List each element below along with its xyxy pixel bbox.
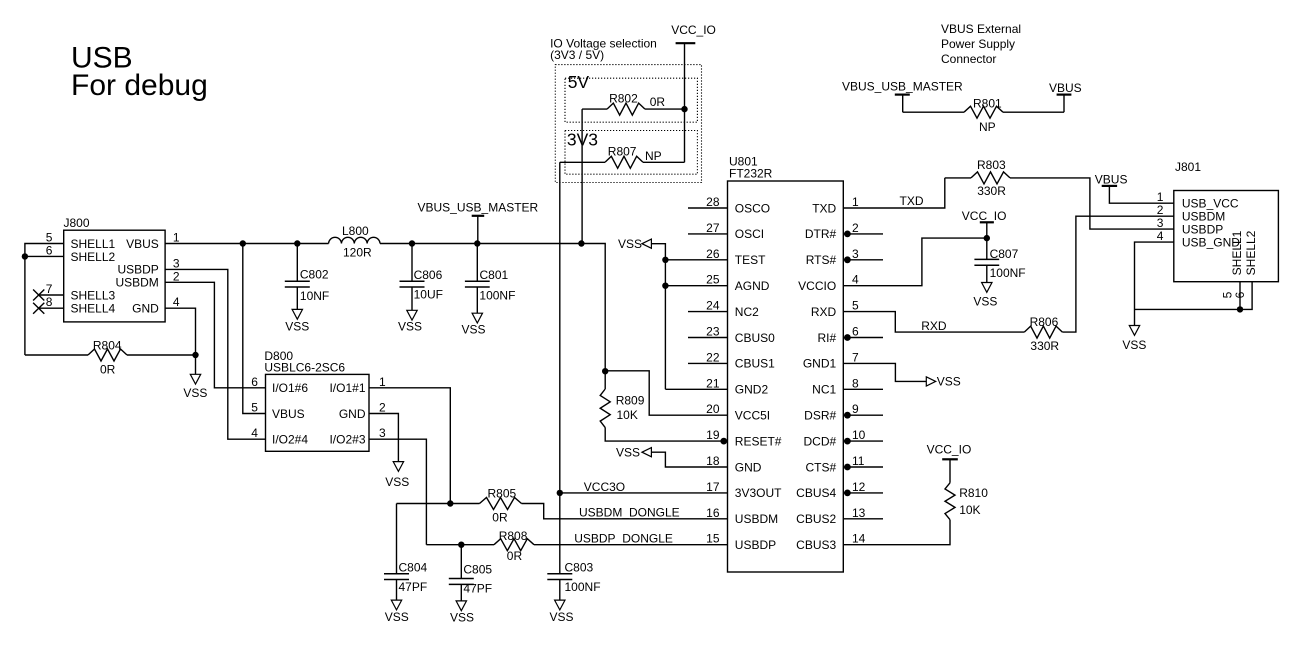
svg-text:4: 4 — [173, 295, 180, 309]
svg-text:0R: 0R — [100, 363, 116, 377]
svg-text:FT232R: FT232R — [729, 166, 773, 180]
svg-text:17: 17 — [706, 480, 720, 494]
wire J800 USBDP to D800 pin4 — [165, 269, 265, 439]
svg-text:TXD: TXD — [812, 201, 836, 215]
capacitor C801 100NF — [476, 244, 478, 282]
resistor R809 10K — [604, 371, 606, 389]
wire U801 pin 9 stub — [843, 414, 883, 416]
svg-text:100NF: 100NF — [990, 266, 1026, 280]
svg-text:VSS: VSS — [616, 445, 640, 459]
dotted box 5V — [565, 78, 697, 122]
svg-text:C806: C806 — [414, 268, 443, 282]
svg-text:330R: 330R — [1030, 339, 1059, 353]
svg-text:C805: C805 — [463, 563, 492, 577]
svg-text:R806: R806 — [1030, 315, 1059, 329]
svg-text:NC2: NC2 — [735, 305, 759, 319]
wire VBUS rail from J800 pin1 to L800 — [165, 243, 329, 245]
capacitor C807 100NF — [986, 238, 988, 259]
svg-text:3: 3 — [852, 247, 859, 261]
svg-text:C802: C802 — [300, 268, 329, 282]
svg-text:USB_VCC: USB_VCC — [1182, 197, 1239, 211]
svg-text:10UF: 10UF — [414, 288, 443, 302]
svg-text:VSS: VSS — [385, 475, 409, 489]
no-connect X pin7 — [33, 290, 44, 301]
wire D800 pin1 to R805 — [369, 388, 450, 504]
svg-text:R801: R801 — [973, 97, 1002, 111]
svg-text:USBDP: USBDP — [1182, 222, 1223, 236]
node junction shell pin5 — [1237, 306, 1243, 312]
svg-text:27: 27 — [706, 221, 720, 235]
wire RXD pin5 — [843, 312, 1024, 333]
wire J800 USBDM to D800 pin6 — [165, 282, 265, 387]
wire VSS to GND pin18 — [651, 452, 727, 467]
svg-text:8: 8 — [852, 376, 859, 390]
capacitor C806 10UF — [411, 244, 413, 282]
svg-text:22: 22 — [706, 350, 720, 364]
svg-text:R807: R807 — [608, 145, 637, 159]
dotted box 3V3 — [565, 131, 697, 175]
svg-text:6: 6 — [46, 243, 53, 257]
resistor R805 0R — [397, 503, 480, 505]
svg-text:USBDP_DONGLE: USBDP_DONGLE — [574, 532, 673, 546]
ground VSS (C806) — [407, 310, 417, 320]
svg-text:R803: R803 — [977, 158, 1006, 172]
svg-text:VSS: VSS — [618, 237, 642, 251]
wire VSS to TEST/AGND/GND2 — [651, 244, 665, 390]
node junction SHELL1/SHELL2 — [22, 253, 28, 259]
svg-text:VSS: VSS — [549, 610, 573, 624]
ground VSS (C801) — [472, 313, 482, 323]
svg-text:VSS: VSS — [398, 320, 422, 334]
node junction R805/D800 pin1 — [447, 500, 453, 506]
svg-text:VSS: VSS — [285, 319, 309, 333]
svg-text:4: 4 — [1157, 229, 1164, 243]
svg-text:L800: L800 — [342, 224, 369, 238]
resistor R804 0R — [25, 354, 88, 356]
capacitor C803 100NF — [547, 573, 572, 575]
node junction C802 — [294, 240, 300, 246]
svg-text:TEST: TEST — [735, 253, 766, 267]
svg-text:VCCIO: VCCIO — [798, 279, 836, 293]
node junction R804/GND — [192, 352, 198, 358]
svg-text:GND: GND — [735, 460, 762, 474]
svg-text:J801: J801 — [1175, 160, 1201, 174]
wire U801 pin 23 stub — [688, 337, 728, 339]
svg-text:11: 11 — [852, 454, 865, 468]
wire VCCIO pin4 to VCC_IO — [843, 238, 987, 286]
svg-text:R809: R809 — [616, 394, 645, 408]
resistor R803 330R — [945, 177, 971, 179]
svg-text:For debug: For debug — [71, 69, 208, 102]
node junction R808/C805 — [458, 542, 464, 548]
resistor R801 NP — [903, 111, 964, 113]
wire R807 left leg down to 3V3OUT and C803 — [559, 162, 561, 573]
svg-text:I/O2#4: I/O2#4 — [272, 433, 308, 447]
capacitor C805 47PF — [460, 545, 462, 579]
svg-text:8: 8 — [46, 295, 53, 309]
svg-text:10NF: 10NF — [300, 289, 329, 303]
svg-text:CTS#: CTS# — [806, 460, 837, 474]
svg-text:SHELL2: SHELL2 — [1244, 230, 1258, 275]
node junction AGND — [662, 283, 668, 289]
svg-text:C804: C804 — [399, 561, 428, 575]
svg-text:NP: NP — [645, 149, 662, 163]
svg-text:4: 4 — [251, 426, 258, 440]
svg-text:VSS: VSS — [450, 611, 474, 625]
svg-text:5V: 5V — [568, 72, 590, 92]
svg-text:SHELL1: SHELL1 — [71, 237, 116, 251]
pin dot RESET# pin19 — [720, 438, 727, 445]
wire U801 pin 12 stub — [843, 492, 883, 494]
svg-text:47PF: 47PF — [399, 580, 428, 594]
svg-text:1: 1 — [852, 195, 859, 209]
svg-text:16: 16 — [706, 506, 720, 520]
svg-text:5: 5 — [251, 401, 258, 415]
svg-text:23: 23 — [706, 325, 720, 339]
svg-text:R802: R802 — [609, 91, 638, 105]
svg-text:100NF: 100NF — [479, 289, 515, 303]
wire R802 left leg down to VBUS rail — [581, 109, 583, 243]
capacitor C804 47PF — [396, 504, 398, 574]
svg-text:100NF: 100NF — [565, 580, 601, 594]
svg-text:VSS: VSS — [385, 610, 409, 624]
svg-text:3: 3 — [1157, 216, 1164, 230]
svg-text:VBUS: VBUS — [126, 237, 159, 251]
svg-text:0R: 0R — [650, 95, 666, 109]
svg-text:26: 26 — [706, 247, 720, 261]
svg-text:7: 7 — [46, 282, 53, 296]
svg-text:Connector: Connector — [941, 52, 996, 66]
svg-text:VBUS_USB_MASTER: VBUS_USB_MASTER — [418, 201, 539, 215]
svg-text:RI#: RI# — [818, 331, 837, 345]
svg-text:RXD: RXD — [921, 319, 947, 333]
svg-text:10K: 10K — [617, 408, 638, 422]
svg-text:Power Supply: Power Supply — [941, 37, 1015, 51]
node junction R802 leg — [578, 240, 584, 246]
svg-text:0R: 0R — [507, 549, 523, 563]
connector J801 — [1174, 191, 1279, 282]
svg-text:GND2: GND2 — [735, 383, 769, 397]
node junction C801 / VBUS_USB_MASTER — [474, 240, 480, 246]
svg-text:0R: 0R — [492, 511, 508, 525]
svg-text:10: 10 — [852, 428, 866, 442]
svg-text:5: 5 — [46, 231, 53, 245]
svg-text:CBUS4: CBUS4 — [796, 486, 836, 500]
diode array D800 USBLC6-2SC6 — [266, 374, 370, 451]
svg-text:VBUS: VBUS — [1049, 81, 1082, 95]
ground VSS arrow (GND1) — [926, 377, 935, 386]
svg-text:13: 13 — [852, 506, 866, 520]
svg-text:VCC_IO: VCC_IO — [927, 442, 972, 456]
svg-text:R808: R808 — [499, 529, 528, 543]
svg-text:1: 1 — [1157, 190, 1164, 204]
svg-text:GND: GND — [132, 302, 159, 316]
svg-text:VCC_IO: VCC_IO — [671, 23, 716, 37]
svg-text:I/O1#1: I/O1#1 — [329, 381, 365, 395]
resistor R807 NP — [560, 161, 605, 163]
svg-text:USBDM: USBDM — [735, 512, 778, 526]
svg-text:USBDP: USBDP — [735, 538, 776, 552]
svg-text:RESET#: RESET# — [735, 434, 782, 448]
wire J800 pin6 SHELL2 stub — [25, 255, 64, 257]
svg-text:2: 2 — [379, 401, 386, 415]
svg-text:VSS: VSS — [973, 294, 997, 308]
svg-text:15: 15 — [706, 532, 720, 546]
svg-text:VSS: VSS — [1122, 338, 1146, 352]
svg-text:3: 3 — [173, 256, 180, 270]
svg-text:OSCO: OSCO — [735, 201, 770, 215]
wire J800 pin4 GND down to VSS — [165, 308, 195, 374]
svg-text:USBDP: USBDP — [117, 263, 158, 277]
node junction R809 top — [602, 368, 608, 374]
wire U801 pin 8 stub — [843, 388, 883, 390]
svg-text:3: 3 — [379, 426, 386, 440]
svg-text:CBUS3: CBUS3 — [796, 538, 836, 552]
svg-text:VSS: VSS — [183, 386, 207, 400]
svg-text:NC1: NC1 — [812, 383, 836, 397]
svg-text:9: 9 — [852, 402, 859, 416]
svg-text:10K: 10K — [959, 503, 980, 517]
wire J800 pin7 stub — [39, 294, 64, 296]
svg-text:USBDM_DONGLE: USBDM_DONGLE — [579, 506, 680, 520]
svg-text:VCC_IO: VCC_IO — [962, 209, 1007, 223]
svg-text:RTS#: RTS# — [806, 253, 837, 267]
wire U801 pin 10 stub — [843, 440, 883, 442]
pin dots U801 pins 2,3,6,9,10,11,12 — [844, 231, 851, 238]
ground VSS (C807) — [982, 283, 992, 293]
node junction VCC_IO/C807 — [984, 235, 990, 241]
wire CBUS3 pin14 to R810 — [843, 520, 950, 545]
svg-text:VBUS External: VBUS External — [941, 22, 1021, 36]
svg-text:4: 4 — [852, 273, 859, 287]
svg-text:(3V3 / 5V): (3V3 / 5V) — [550, 48, 604, 62]
svg-text:21: 21 — [706, 376, 720, 390]
svg-text:6: 6 — [251, 375, 258, 389]
dotted box outer — [555, 65, 701, 183]
svg-text:J800: J800 — [64, 216, 90, 230]
svg-text:20: 20 — [706, 402, 720, 416]
wire U801 pin 28 stub — [688, 207, 728, 209]
no-connect X pin8 — [33, 303, 44, 314]
svg-text:24: 24 — [706, 299, 720, 313]
svg-text:2: 2 — [852, 221, 859, 235]
svg-text:CBUS0: CBUS0 — [735, 331, 775, 345]
svg-text:SHELL1: SHELL1 — [1230, 230, 1244, 275]
ground VSS (J801) — [1129, 326, 1139, 336]
svg-text:CBUS2: CBUS2 — [796, 512, 836, 526]
svg-text:GND1: GND1 — [803, 357, 837, 371]
wire U801 pin 2 stub — [843, 233, 883, 235]
svg-text:VCC5I: VCC5I — [735, 409, 770, 423]
wire 3V3OUT pin17 VCC3O — [560, 492, 728, 494]
svg-text:330R: 330R — [977, 184, 1006, 198]
svg-text:SHELL3: SHELL3 — [71, 288, 116, 302]
svg-text:I/O1#6: I/O1#6 — [272, 381, 308, 395]
svg-text:SHELL4: SHELL4 — [71, 302, 116, 316]
svg-text:USBDM: USBDM — [1182, 209, 1225, 223]
svg-text:28: 28 — [706, 195, 720, 209]
svg-text:VSS: VSS — [461, 323, 485, 337]
svg-text:R804: R804 — [93, 338, 122, 352]
svg-text:47PF: 47PF — [463, 582, 492, 596]
node junction C806 — [409, 240, 415, 246]
svg-text:C801: C801 — [480, 268, 509, 282]
svg-text:C803: C803 — [565, 561, 594, 575]
wire U801 pin 24 stub — [688, 311, 728, 313]
resistor R806 330R — [1024, 326, 1062, 338]
wire D800 pin3 to R808 — [369, 439, 426, 545]
svg-text:VBUS: VBUS — [1095, 172, 1128, 186]
svg-text:I/O2#3: I/O2#3 — [329, 433, 365, 447]
wire D800 pin2 GND to VSS — [369, 414, 398, 462]
ground VSS (D800 GND) — [393, 462, 403, 472]
svg-text:2: 2 — [1157, 203, 1164, 217]
node junction D800 VBUS tap — [240, 240, 246, 246]
svg-text:GND: GND — [339, 407, 366, 421]
svg-text:USBDM: USBDM — [115, 276, 158, 290]
connector J800 — [64, 230, 165, 322]
node junction TEST — [662, 257, 668, 263]
ground VSS (C805) — [456, 601, 466, 611]
svg-text:18: 18 — [706, 454, 720, 468]
wire VCC5I branch — [605, 371, 727, 415]
inductor L800 120R — [329, 237, 380, 243]
svg-text:120R: 120R — [343, 246, 372, 260]
svg-text:R810: R810 — [959, 486, 988, 500]
svg-text:6: 6 — [852, 325, 859, 339]
svg-text:VBUS_USB_MASTER: VBUS_USB_MASTER — [842, 79, 963, 93]
node junction R802/VCC_IO — [681, 106, 687, 112]
svg-text:VSS: VSS — [937, 375, 961, 389]
svg-text:1: 1 — [379, 375, 386, 389]
wire J800 pin8 stub — [39, 307, 64, 309]
wire GND1 pin7 to VSS — [843, 363, 926, 381]
wire J801 pin4 USB_GND to VSS and shells — [1135, 242, 1174, 325]
wire U801 pin 13 stub — [843, 518, 883, 520]
wire U801 pin 27 stub — [688, 233, 728, 235]
svg-text:OSCI: OSCI — [735, 227, 764, 241]
wire U801 pin 6 stub — [843, 337, 883, 339]
resistor R802 0R — [582, 108, 607, 110]
svg-text:CBUS1: CBUS1 — [735, 357, 775, 371]
svg-text:VBUS: VBUS — [272, 407, 305, 421]
svg-text:12: 12 — [852, 480, 866, 494]
svg-text:TXD: TXD — [900, 194, 924, 208]
ground VSS (J800 GND) — [190, 374, 200, 384]
resistor R810 10K — [945, 483, 955, 520]
wire VBUS tap to D800 pin5 — [243, 244, 266, 414]
ground VSS (C802) — [292, 309, 302, 319]
svg-text:25: 25 — [706, 273, 720, 287]
ground VSS (C804) — [391, 600, 401, 610]
capacitor C802 10NF — [296, 244, 298, 282]
wire U801 pin 3 stub — [843, 259, 883, 261]
wire TXD pin1 — [843, 178, 945, 208]
svg-text:USBLC6-2SC6: USBLC6-2SC6 — [264, 361, 345, 375]
svg-text:14: 14 — [852, 532, 866, 546]
svg-text:C807: C807 — [990, 247, 1019, 261]
ground VSS (C803) — [555, 600, 565, 610]
svg-text:7: 7 — [852, 350, 859, 364]
svg-text:DCD#: DCD# — [804, 434, 837, 448]
svg-text:DTR#: DTR# — [805, 227, 837, 241]
svg-text:3V3OUT: 3V3OUT — [735, 486, 782, 500]
wire U801 pin 22 stub — [688, 362, 728, 364]
svg-text:R805: R805 — [488, 487, 517, 501]
svg-text:VCC3O: VCC3O — [584, 480, 625, 494]
svg-text:RXD: RXD — [811, 305, 837, 319]
wire VBUS rail from L800 to R809 branch — [380, 244, 605, 371]
wire VBUS to J801 pin1 — [1109, 186, 1173, 203]
node junction 3V3OUT/C803 — [557, 490, 563, 496]
svg-text:1: 1 — [173, 231, 180, 245]
wire U801 pin 11 stub — [843, 466, 883, 468]
svg-text:DSR#: DSR# — [804, 409, 836, 423]
svg-text:NP: NP — [979, 120, 996, 134]
svg-text:SHELL2: SHELL2 — [71, 250, 116, 264]
resistor R808 0R — [426, 544, 494, 546]
IC U801 FT232R — [728, 181, 844, 572]
svg-text:2: 2 — [173, 269, 180, 283]
wire J800 pin5 SHELL1 to pin6 and down to R804 — [25, 244, 64, 356]
svg-text:5: 5 — [852, 299, 859, 313]
svg-text:19: 19 — [706, 428, 720, 442]
svg-text:AGND: AGND — [735, 279, 770, 293]
